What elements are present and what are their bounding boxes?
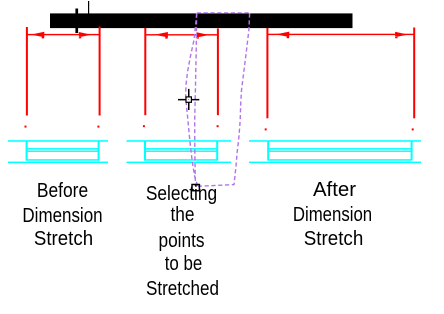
crossing polygon right edge [234, 14, 250, 186]
crosshair pickbox [186, 97, 191, 102]
dimension 3 defpoint left [265, 128, 267, 130]
label line: Stretch (left) [5, 227, 122, 252]
beam detail 3 inner line A [268, 148, 411, 149]
label line: Dimension (left) [10, 204, 116, 229]
beam detail 2 bottom chord [127, 162, 232, 164]
dimension 2 arrow right [197, 32, 210, 38]
label line: to be [131, 252, 237, 277]
dimension 2 defpoint left [143, 125, 145, 127]
crosshair vertical line [188, 89, 190, 110]
dimension 1 arrow right [79, 32, 92, 38]
beam detail 1 plate right edge [98, 141, 100, 161]
beam detail 2 plate right edge [216, 141, 218, 161]
label line: Selecting [127, 182, 235, 207]
beam detail 1 bottom chord [8, 162, 108, 164]
label line: Dimension (right) [281, 203, 386, 228]
dimension 2 extension line right [217, 29, 219, 116]
dimension 3 arrow right [395, 32, 408, 38]
beam bar (black) [50, 13, 353, 28]
beam detail 1 top chord [8, 140, 108, 142]
dimension 2 extension line left [144, 28, 146, 115]
beam detail 2 plate bottom [145, 159, 218, 161]
beam detail 1 plate bottom [26, 159, 99, 161]
dimension 3 extension line left [266, 28, 268, 118]
crossing polygon top edge [197, 12, 250, 14]
dimension 1 extension line left [26, 27, 28, 116]
beam detail 2 top chord [127, 140, 232, 142]
beam detail 3 inner line B [268, 151, 411, 152]
dimension 3 arrow left [276, 32, 290, 39]
crossing polygon closing edge [195, 14, 197, 187]
beam detail 3 bottom chord [249, 162, 421, 164]
crossing polygon left edge [186, 14, 198, 187]
beam detail 2 plate left edge [144, 141, 146, 161]
beam detail 1 inner line B [26, 151, 99, 152]
crosshair pickbox center dot [188, 99, 189, 100]
dimension 1 arrow left [31, 32, 45, 39]
label line: Stretched [129, 277, 236, 302]
crosshair horizontal line [178, 99, 199, 101]
dimension 1 defpoint left [25, 126, 27, 128]
beam detail 2 inner line A [145, 148, 218, 149]
beam detail 2 inner line B [145, 151, 218, 152]
label line: After [271, 178, 399, 203]
beam detail 1 plate left edge [26, 141, 28, 161]
dimension 2 dimension line [145, 34, 218, 35]
thin vertical line above bar [88, 1, 89, 14]
label line: the [129, 203, 237, 228]
beam detail 3 plate right edge [411, 141, 413, 161]
dimension 2 defpoint right [217, 125, 219, 127]
dimension 2 arrow left [154, 32, 168, 39]
dimension 3 extension line right [413, 28, 415, 119]
dimension 1 extension line right [99, 27, 101, 116]
crossing polygon bottom edge [198, 185, 234, 187]
dimension 1 dimension line [26, 34, 99, 35]
beam detail 3 plate left edge [267, 141, 269, 161]
label line: Stretch (right) [275, 227, 393, 252]
selection grip box over text [192, 185, 199, 191]
dimension 3 defpoint right [412, 128, 414, 130]
dimension 3 dimension line [267, 34, 414, 35]
tick mark crossing bar [75, 9, 78, 34]
beam detail 1 inner line A [26, 148, 99, 149]
label line: points [128, 229, 236, 254]
beam detail 3 top chord [249, 140, 421, 142]
beam detail 3 plate bottom [268, 159, 411, 161]
label line: Before [8, 179, 117, 204]
dimension 1 defpoint right [97, 126, 99, 128]
